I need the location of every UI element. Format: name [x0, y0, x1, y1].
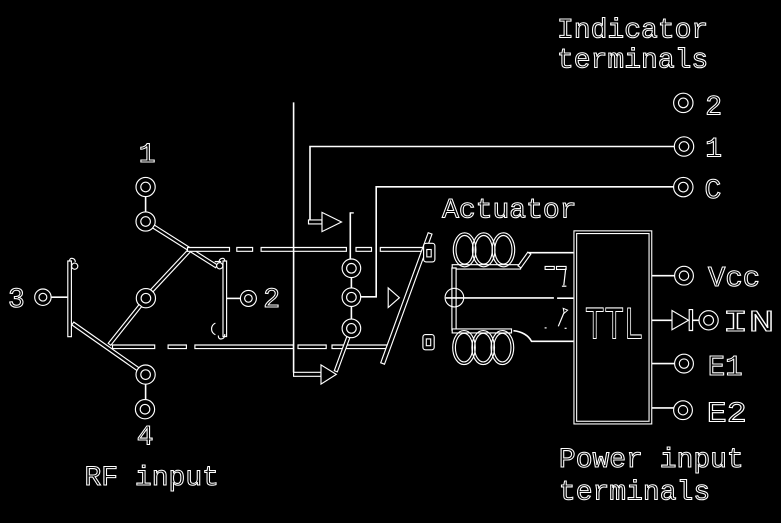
RF port 3 terminal circle: [35, 289, 51, 305]
RF port 4 terminal circle upper: [136, 365, 155, 384]
svg-text:Actuator: Actuator: [442, 196, 576, 227]
diode D1: [672, 311, 689, 330]
svg-text:E2: E2: [707, 397, 747, 430]
wire E1: [652, 363, 675, 365]
RF port 2 contact bracket: [223, 261, 227, 337]
svg-text:1: 1: [705, 135, 722, 166]
coil upper loop 1: [453, 233, 476, 267]
svg-text:4: 4: [137, 423, 154, 454]
wire node vertical: [452, 268, 456, 330]
indicator common circle middle: [342, 288, 361, 307]
wire IN: [652, 319, 672, 321]
RF rotor center circle: [136, 289, 155, 308]
mechanical link lower segment 5: [332, 345, 389, 349]
E2 terminal circle: [674, 401, 693, 420]
wire link: [350, 278, 352, 289]
RF port 1 terminal circle upper: [136, 177, 155, 196]
lever guide upper: [424, 243, 435, 262]
lever guide lower: [423, 335, 434, 350]
RF port 1 terminal circle lower: [136, 212, 155, 231]
svg-text:terminals: terminals: [559, 478, 710, 509]
wire E2: [652, 407, 674, 409]
indicator moving blade: [334, 337, 350, 372]
mechanical link lower segment 3: [195, 345, 294, 349]
svg-text:1: 1: [139, 140, 156, 171]
svg-text:3: 3: [8, 285, 25, 316]
wire port2: [227, 297, 242, 299]
wire link: [350, 307, 352, 320]
indicator contact circle bottom: [342, 319, 361, 338]
coil lower loop 1: [453, 331, 476, 365]
contact seat arc: [212, 323, 216, 335]
svg-text:2: 2: [263, 285, 280, 316]
mechanical link upper segment 2: [237, 248, 253, 252]
wire coil lower to TTL: [513, 331, 573, 342]
svg-text:terminals: terminals: [557, 46, 708, 77]
wire node to TTL: [446, 297, 554, 299]
actuator upper contact: [545, 266, 554, 269]
mechanical link lower segment 1: [113, 345, 155, 349]
indicator wire C bend: [360, 187, 673, 297]
indicator contact circle top: [342, 259, 361, 278]
mechanical link upper segment 1: [188, 248, 230, 252]
wire port4 link: [145, 384, 147, 399]
svg-text:E1: E1: [708, 351, 743, 384]
drive arrow stub lower: [294, 372, 321, 376]
svg-text:Power input: Power input: [559, 445, 744, 476]
rotor arm lower: [108, 305, 141, 346]
svg-text:IN: IN: [723, 306, 775, 341]
lever arrow: [388, 288, 399, 308]
coil upper baseline: [452, 265, 520, 269]
svg-text:Indicator: Indicator: [557, 15, 708, 46]
RF switch arm port3 to port4: [72, 322, 139, 371]
svg-text:RF input: RF input: [85, 463, 219, 494]
svg-text:2: 2: [705, 92, 722, 123]
mechanical link upper segment 5: [380, 248, 423, 252]
drive arrow lower: [321, 365, 336, 384]
wire Vcc: [652, 275, 675, 277]
wire port3: [51, 296, 67, 298]
coil lower loop 2: [472, 331, 495, 365]
svg-text:TTL: TTL: [585, 300, 643, 352]
IN terminal circle: [699, 311, 718, 330]
svg-text:C: C: [705, 176, 722, 207]
drive arrow upper: [322, 212, 342, 231]
coil upper loop 3: [492, 233, 515, 267]
coil lower loop 3: [491, 331, 514, 365]
mechanical link upper segment 4: [356, 248, 372, 252]
indicator terminal 1 circle: [674, 137, 693, 156]
indicator terminal C circle: [674, 177, 693, 196]
actuator node circle: [445, 288, 464, 307]
actuator lever: [381, 233, 432, 365]
coil lower baseline: [452, 329, 511, 333]
mechanical link upper segment 3: [261, 248, 346, 252]
wire coil upper to TTL: [518, 252, 531, 268]
svg-text:Vcc: Vcc: [708, 262, 760, 295]
Vcc terminal circle: [675, 266, 694, 285]
mechanical link lower segment 4: [298, 345, 326, 349]
wire port1 link: [145, 197, 147, 212]
indicator contact bar: [349, 212, 351, 259]
rotor arm upper: [151, 249, 191, 292]
RF contact bracket of port 3: [68, 261, 72, 337]
RF switch moving arm from port1: [153, 225, 218, 268]
mechanical link lower segment 2: [168, 345, 186, 349]
TTL driver box U1: [575, 232, 650, 422]
E1 terminal circle: [675, 354, 694, 373]
contact tick: [215, 261, 222, 263]
indicator terminal 2 circle: [674, 93, 693, 112]
mechanical drive vertical wire: [293, 102, 295, 372]
coil upper loop 2: [472, 233, 495, 267]
RF port 2 terminal circle: [240, 290, 256, 306]
actuator lower contact: [558, 310, 565, 327]
RF port 4 terminal circle lower: [135, 400, 154, 419]
indicator wire 1 bend: [310, 147, 674, 222]
drive arrow stub upper: [309, 220, 323, 224]
